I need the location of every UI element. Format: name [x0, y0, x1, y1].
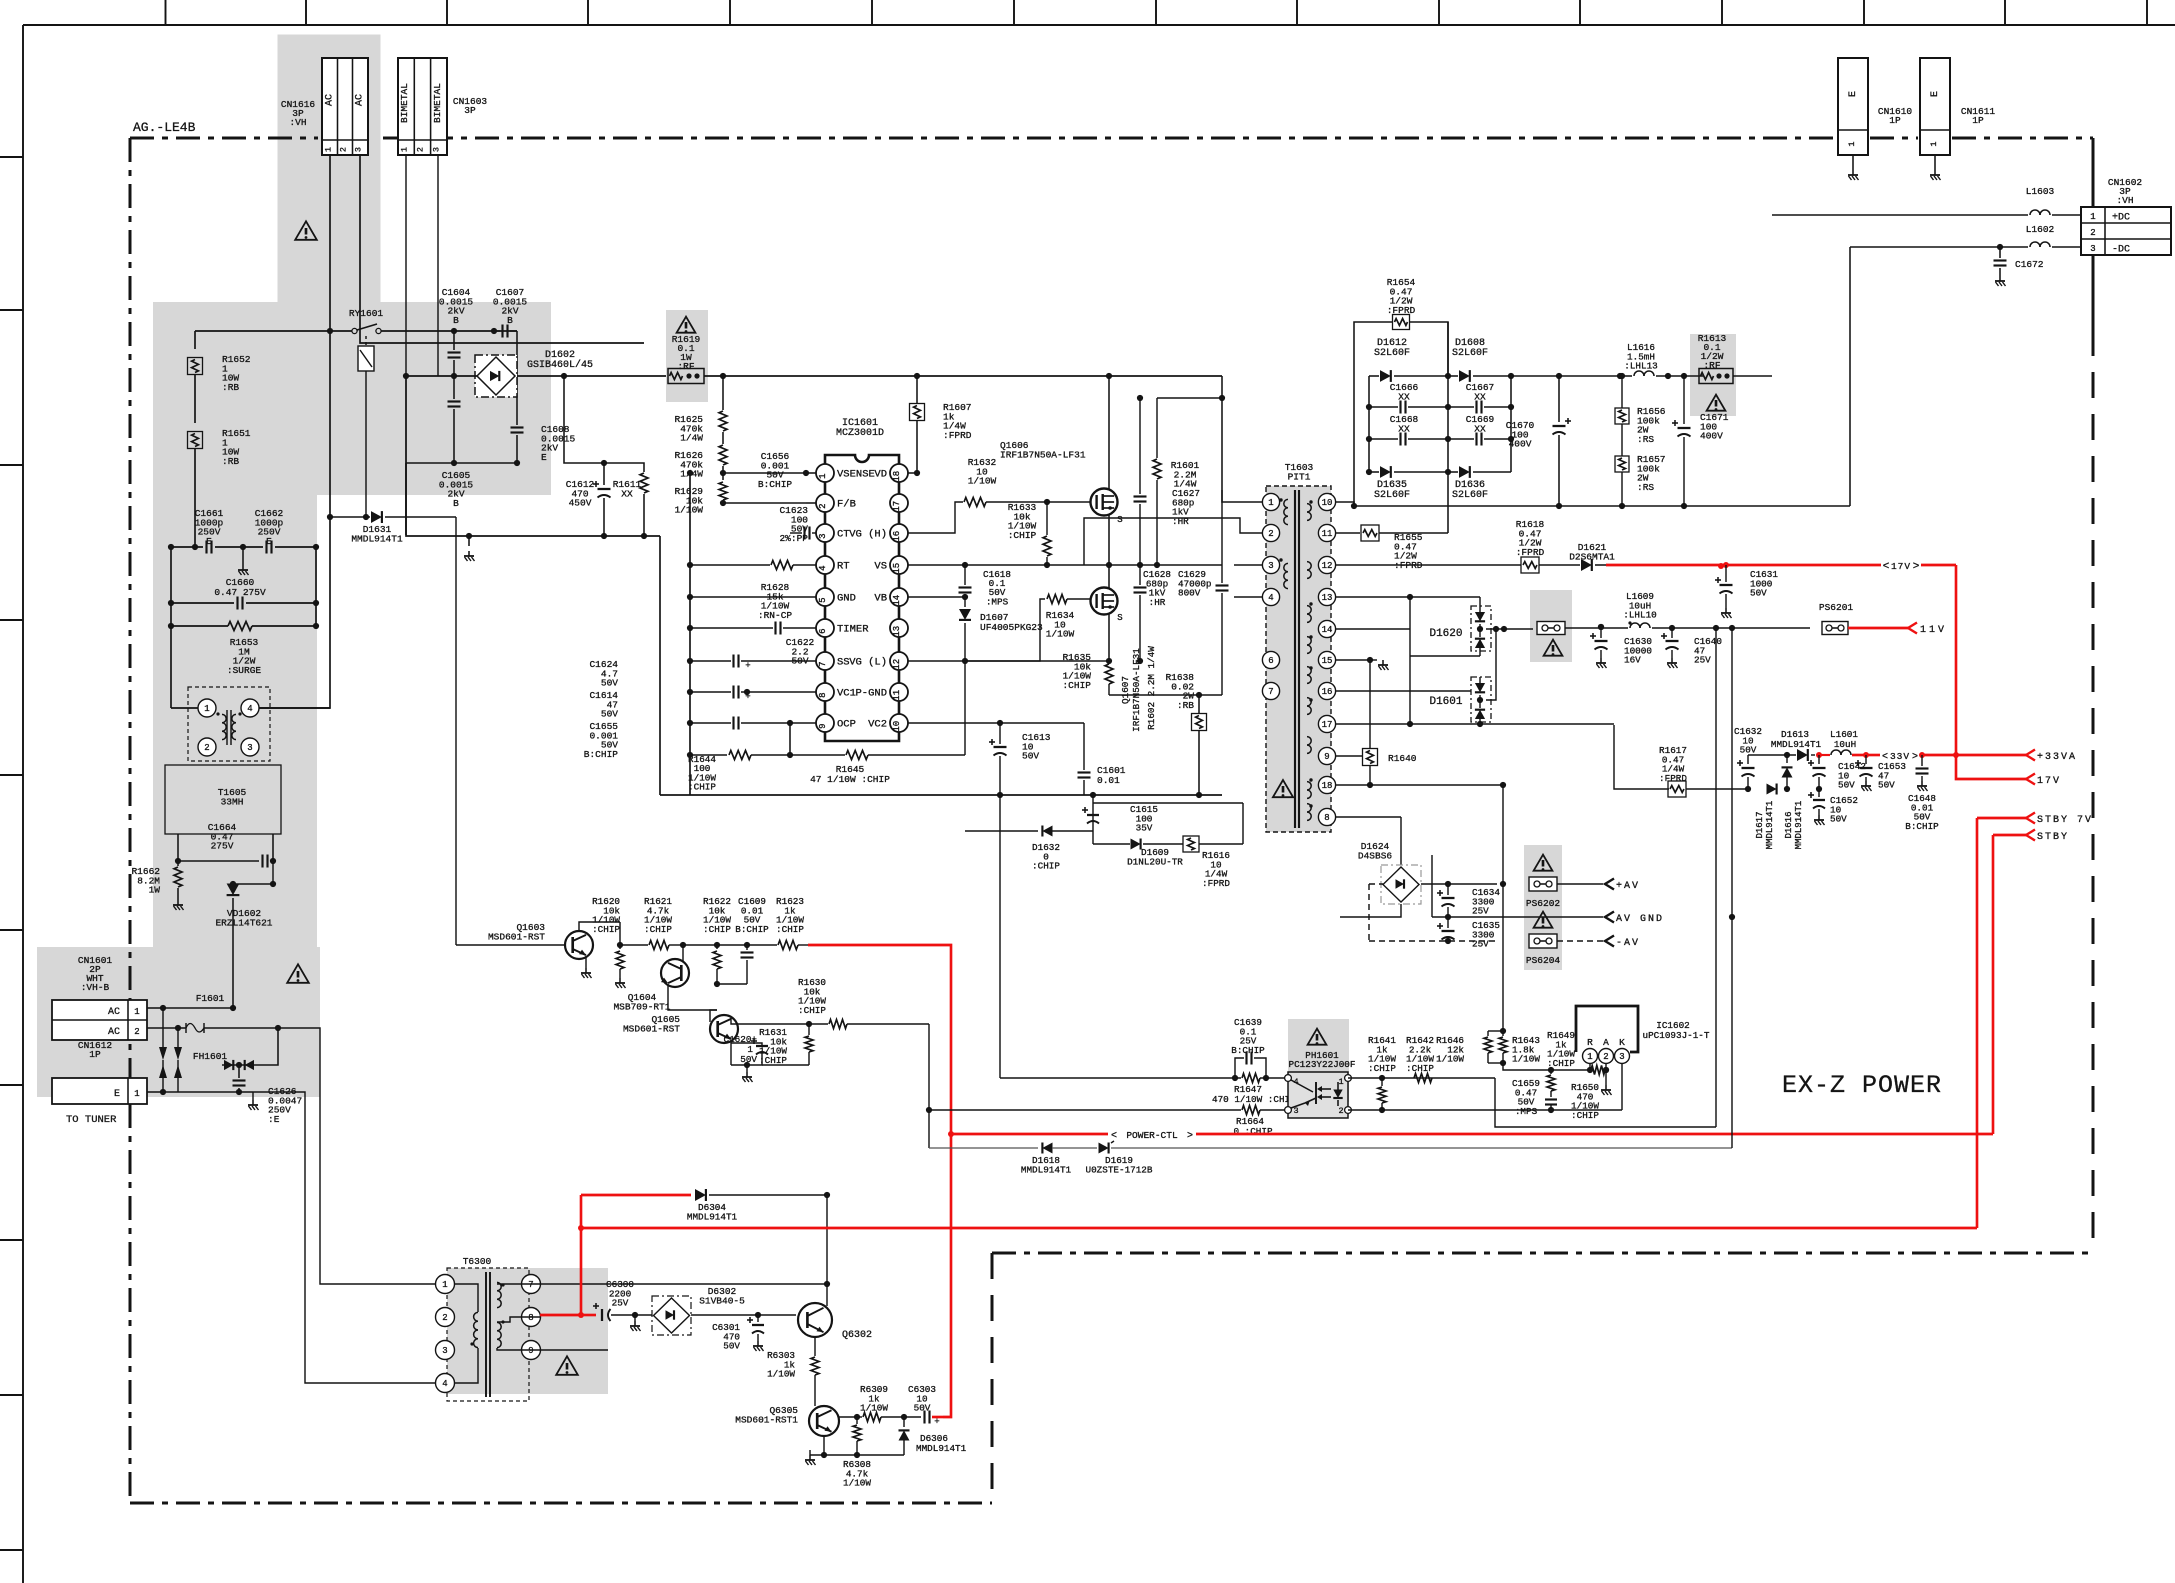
svg-text:<: < — [1883, 561, 1890, 573]
T1603 pin 16 — [1318, 682, 1335, 699]
svg-text:B: B — [507, 315, 513, 326]
svg-text:1: 1 — [324, 147, 334, 152]
resistor R1653 — [171, 625, 228, 627]
svg-text:2: 2 — [442, 1313, 447, 1323]
svg-text:TIMER: TIMER — [837, 624, 869, 636]
svg-text:S: S — [1117, 613, 1122, 623]
wire vsense to pin1 — [806, 472, 822, 474]
IC1601 pin 8 — [816, 683, 834, 701]
IC1601 pin 17 — [890, 494, 908, 512]
svg-text:0.47 275V: 0.47 275V — [214, 587, 266, 598]
fuse FH1601 on AC2 — [147, 1027, 178, 1029]
svg-text:1: 1 — [134, 1089, 139, 1099]
svg-text:+: + — [745, 661, 750, 671]
svg-text::MPS: :MPS — [1515, 1106, 1538, 1117]
svg-text:CT: CT — [837, 529, 850, 541]
svg-text:POWER-CTL: POWER-CTL — [1126, 1130, 1178, 1141]
IC1601 pin 4 — [816, 556, 834, 574]
IC1601 pin 3 — [816, 524, 834, 542]
svg-text:1: 1 — [2090, 212, 2095, 222]
resistor R1647 — [1242, 1074, 1260, 1083]
svg-text::CHIP: :CHIP — [798, 1005, 826, 1016]
T1603 pin coil stubs — [1284, 490, 1288, 502]
svg-text:10: 10 — [1322, 498, 1333, 508]
svg-text:13: 13 — [1322, 593, 1333, 603]
bridge rectifier D1602 — [475, 355, 517, 397]
svg-text:9: 9 — [528, 1346, 533, 1356]
transistor Q6302 darlington — [798, 1303, 832, 1337]
wire R1651 down — [194, 449, 196, 547]
svg-text:B:CHIP: B:CHIP — [758, 479, 793, 490]
wire rail branch down to C1612 — [564, 376, 604, 463]
svg-text::RS: :RS — [1637, 482, 1654, 493]
svg-text:uPC1093J-1-T: uPC1093J-1-T — [1643, 1030, 1710, 1041]
svg-text::FPRD: :FPRD — [1659, 773, 1687, 784]
wire top rail corner to C1608 — [516, 331, 518, 425]
connector CN1603 — [398, 58, 447, 155]
wire HV rail to T1603 pin1 — [1221, 376, 1223, 398]
svg-text:4: 4 — [1268, 593, 1273, 603]
svg-text:E: E — [1848, 91, 1859, 97]
gray region PS6204 — [1524, 906, 1562, 970]
wire 33V return line — [1748, 788, 1766, 790]
svg-text::RN-CP: :RN-CP — [758, 610, 793, 621]
svg-text:1/10W: 1/10W — [767, 1369, 795, 1380]
svg-text:6: 6 — [818, 628, 828, 633]
svg-text:5: 5 — [818, 597, 828, 602]
svg-text:F1601: F1601 — [196, 993, 225, 1004]
connector CN1616 — [322, 58, 368, 155]
wire T1605 connections — [171, 707, 198, 709]
wire VC2 to C1601 — [1000, 722, 1084, 724]
T1603 pin 12 — [1318, 556, 1335, 573]
svg-text:50V: 50V — [1830, 814, 1847, 825]
svg-text:TO TUNER: TO TUNER — [66, 1114, 117, 1126]
svg-text:2: 2 — [1338, 1106, 1343, 1116]
capacitor C1626 — [238, 1065, 240, 1078]
svg-text:B: B — [453, 315, 459, 326]
gray region R1613 — [1690, 334, 1736, 416]
IC1602 pin3 to K line — [1621, 1063, 1623, 1110]
svg-text::FPRD: :FPRD — [1516, 547, 1545, 558]
wire opto pin1 line — [1348, 1077, 1495, 1079]
T1603 pin 1 — [1262, 493, 1279, 510]
wire D1620 center out to 11V — [1486, 628, 1533, 630]
wire GND pin5 — [690, 596, 816, 598]
svg-text:1: 1 — [1587, 1052, 1592, 1062]
gray region T1603 — [1266, 486, 1331, 832]
svg-text::RF: :RF — [677, 361, 694, 372]
svg-text:1P: 1P — [1972, 115, 1984, 126]
left bus vertical — [689, 473, 691, 755]
IC1601 pin 14 — [890, 588, 908, 606]
svg-text:2: 2 — [2090, 228, 2095, 238]
resistor R1628 at RT — [690, 564, 770, 566]
svg-text:18: 18 — [1322, 781, 1333, 791]
transistor Q1607 MOSFET — [1091, 588, 1118, 615]
capacitor C1672 — [1997, 244, 2003, 250]
svg-text:IRF1B7N50A-LF31: IRF1B7N50A-LF31 — [1000, 449, 1086, 460]
resistor R1601 — [1157, 397, 1222, 399]
svg-text:STBY: STBY — [2037, 832, 2069, 843]
svg-text:L1603: L1603 — [2026, 186, 2055, 197]
+AV arrow — [1605, 879, 1614, 890]
wire Q1606 source to VS rail — [1108, 515, 1110, 565]
svg-text:OCP: OCP — [837, 719, 856, 731]
svg-text:-AV: -AV — [1616, 938, 1640, 949]
svg-text:11: 11 — [892, 690, 902, 701]
wire main HV rail — [704, 375, 1222, 377]
red STBY7V vertical — [1976, 818, 1979, 1228]
diode pair at C1626 — [232, 1008, 234, 1065]
svg-text:S2L60F: S2L60F — [1452, 490, 1488, 501]
svg-text:VC1: VC1 — [837, 688, 856, 700]
wire AC1 arrows — [162, 1008, 164, 1047]
T6300 winding stubs — [454, 1284, 478, 1312]
svg-text::FPRD: :FPRD — [943, 430, 972, 441]
svg-text:VC2: VC2 — [868, 719, 887, 731]
svg-text:BIMETAL: BIMETAL — [432, 83, 443, 123]
wire T1605 to lower section — [177, 834, 179, 861]
relay RY1601 coil — [365, 336, 367, 346]
jumper gray PS with warn — [1537, 622, 1565, 635]
svg-text:D1NL20U-TR: D1NL20U-TR — [1127, 856, 1183, 867]
svg-text:1: 1 — [818, 473, 828, 478]
wire R1655 to D block mid — [1379, 532, 1448, 534]
svg-text:7: 7 — [528, 1280, 533, 1290]
wire R1664 line — [929, 1109, 1241, 1111]
svg-text::LHL10: :LHL10 — [1623, 610, 1656, 621]
T1603 pin 18 — [1318, 776, 1335, 793]
T1603 pin 15 — [1318, 651, 1335, 668]
svg-text:25V: 25V — [1694, 655, 1711, 666]
svg-text:4: 4 — [247, 704, 252, 714]
svg-text:AV GND: AV GND — [1616, 914, 1664, 925]
svg-text:1P: 1P — [89, 1049, 101, 1060]
svg-text:450V: 450V — [569, 498, 592, 509]
svg-text:800V: 800V — [1178, 588, 1201, 599]
diode D6304 line — [581, 1194, 691, 1197]
wire fb to pin2 — [806, 502, 822, 504]
fuse PS6202 — [1534, 855, 1553, 871]
warning symbol T6300 — [556, 1356, 578, 1375]
resistor R1655 fusible — [1361, 525, 1379, 541]
svg-text:L1602: L1602 — [2026, 224, 2055, 235]
svg-text:3: 3 — [1619, 1052, 1624, 1062]
wire pin12 VG(L) to Q1607 gate — [908, 599, 1045, 661]
svg-text:1/10W: 1/10W — [843, 1478, 871, 1489]
svg-text:PIT1: PIT1 — [1288, 472, 1311, 483]
svg-text:17V: 17V — [2037, 776, 2061, 787]
svg-text:MMDL914T1: MMDL914T1 — [351, 533, 403, 544]
svg-text:R1640: R1640 — [1388, 753, 1417, 764]
svg-text::CHIP: :CHIP — [1032, 861, 1060, 872]
svg-text:1/10W: 1/10W — [1436, 1054, 1464, 1065]
wire CN1616 pin3 run — [360, 155, 644, 343]
resistor R1619 fusible — [677, 317, 696, 333]
svg-text:4: 4 — [818, 565, 828, 570]
svg-text:8: 8 — [818, 692, 828, 697]
page frame — [23, 24, 2175, 26]
wire D1618 line — [929, 1147, 1038, 1149]
svg-text:1: 1 — [1268, 498, 1273, 508]
svg-text:RT: RT — [837, 561, 850, 573]
wire pin3 run — [1234, 564, 1262, 566]
svg-text:3: 3 — [1268, 561, 1273, 571]
IC1601 pin 1 — [816, 464, 834, 482]
wire FH1601 to T6300 pin1 — [275, 1025, 281, 1031]
wire bridge left rail — [406, 375, 477, 377]
svg-text:1/10W: 1/10W — [968, 476, 997, 487]
svg-text:MMDL914T1: MMDL914T1 — [916, 1443, 967, 1454]
svg-text:UF4005PKG23: UF4005PKG23 — [980, 622, 1043, 633]
svg-text:B:CHIP: B:CHIP — [584, 749, 619, 760]
svg-text:MMDL914T1: MMDL914T1 — [687, 1211, 738, 1222]
svg-text:3: 3 — [354, 147, 364, 152]
red wire R1623 to power-ctl — [798, 944, 808, 946]
svg-text:MSD601-RST: MSD601-RST — [623, 1023, 680, 1034]
svg-text:P-GND: P-GND — [855, 688, 887, 700]
diode D1636 — [1448, 471, 1458, 473]
wire pin1 line corner down — [1495, 1078, 1716, 1127]
gray region T6300 — [447, 1268, 608, 1394]
wire relay coil down — [365, 371, 367, 517]
base line right — [838, 1416, 857, 1418]
T1603 primary coils — [1284, 499, 1288, 507]
IC1601 pin 9 — [816, 714, 834, 732]
capacitor C1631 — [1723, 562, 1729, 568]
svg-text:R1602 2.2M 1/4W: R1602 2.2M 1/4W — [1146, 646, 1157, 730]
wire sense node — [1503, 1063, 1590, 1070]
IC1601 pin 2 — [816, 494, 834, 512]
svg-text:E: E — [114, 1089, 120, 1100]
wire +AV line — [1421, 883, 1497, 885]
svg-text:47 1/10W :CHIP: 47 1/10W :CHIP — [810, 774, 890, 785]
svg-text:EX-Z POWER: EX-Z POWER — [1782, 1071, 1942, 1100]
svg-text:17: 17 — [1322, 720, 1333, 730]
svg-text:VSENSE: VSENSE — [837, 469, 875, 481]
svg-text:50V: 50V — [601, 709, 618, 720]
svg-text:10uH: 10uH — [1834, 739, 1856, 750]
wire D1601 center out — [1486, 629, 1496, 700]
T1603 pin 14 — [1318, 620, 1335, 637]
gray region PS6202 — [1524, 845, 1562, 909]
wire AC to resistor chain — [195, 330, 330, 332]
wire left column verticals — [170, 547, 172, 708]
wire CT pin3 — [789, 503, 791, 533]
T1603 pin 6 — [1262, 651, 1279, 668]
svg-text::CHIP: :CHIP — [776, 924, 804, 935]
svg-text:GND: GND — [837, 593, 856, 605]
red STBY7V rail bottom — [578, 1225, 584, 1231]
red +33VA arrow — [2026, 750, 2035, 761]
svg-text:50V: 50V — [1022, 751, 1039, 762]
wire bridge bottom return — [1340, 904, 1401, 917]
svg-text:400V: 400V — [1509, 439, 1532, 450]
svg-text:16V: 16V — [1624, 655, 1641, 666]
svg-text:<: < — [1111, 1131, 1117, 1142]
svg-text:3: 3 — [2090, 244, 2095, 254]
svg-text:2: 2 — [204, 743, 209, 753]
svg-text:GSIB460L/45: GSIB460L/45 — [527, 359, 593, 371]
svg-text:S2L60F: S2L60F — [1374, 348, 1410, 359]
svg-text:AC: AC — [325, 94, 336, 106]
wire D6302 out — [691, 1314, 796, 1316]
svg-text:1: 1 — [1338, 1077, 1343, 1087]
svg-text:8: 8 — [528, 1313, 533, 1323]
fuse PS6204 — [1534, 912, 1553, 928]
IC1601 pin 10 — [890, 714, 908, 732]
svg-text:7: 7 — [1268, 687, 1273, 697]
IC1601 pin 11 — [890, 683, 908, 701]
diode D1631 — [330, 516, 370, 518]
T1603 pin 4 — [1262, 588, 1279, 605]
svg-text:33MH: 33MH — [221, 796, 244, 807]
svg-text::MPS: :MPS — [986, 596, 1009, 607]
svg-text:XX: XX — [621, 488, 633, 499]
svg-text::CHIP: :CHIP — [1008, 530, 1037, 541]
diode D6306 — [903, 1417, 905, 1427]
svg-text::CHIP: :CHIP — [688, 782, 716, 793]
svg-text:AC: AC — [355, 94, 366, 106]
wire CN1611 ground stub — [1934, 155, 1936, 170]
svg-text:+: + — [934, 1417, 939, 1427]
T1603 pin 3 — [1262, 556, 1279, 573]
capacitor C1628 snubber — [1139, 565, 1141, 585]
wire R1652-R1651 — [194, 375, 196, 423]
svg-text:RY1601: RY1601 — [349, 308, 384, 319]
wire opto pin2 line — [1348, 1109, 1622, 1111]
svg-text::CHIP: :CHIP — [1368, 1063, 1396, 1074]
svg-text:2: 2 — [339, 147, 349, 152]
svg-text:50V: 50V — [723, 1341, 740, 1352]
svg-text::CHIP: :CHIP — [1062, 680, 1091, 691]
svg-text:2: 2 — [134, 1027, 139, 1037]
svg-text::CHIP: :CHIP — [703, 924, 731, 935]
svg-text:T6300: T6300 — [463, 1256, 492, 1267]
capacitor C1613 — [908, 722, 1000, 724]
wire to fuse F1601 — [232, 955, 234, 1008]
svg-text:>: > — [1187, 1131, 1193, 1142]
IC1602 pin2 ground — [1605, 1063, 1607, 1085]
svg-text:E: E — [541, 452, 547, 463]
long vertical to IC1602 box — [1715, 628, 1717, 832]
svg-text::CHIP: :CHIP — [759, 1055, 787, 1066]
svg-text:K: K — [1619, 1037, 1625, 1048]
svg-text:11: 11 — [1322, 529, 1333, 539]
svg-text:50V: 50V — [1750, 588, 1767, 599]
svg-text:Q1607: Q1607 — [1120, 676, 1131, 704]
diode D1619 zener — [1099, 1143, 1109, 1154]
svg-text:275V: 275V — [211, 841, 234, 852]
connector CN1611 — [1920, 58, 1950, 155]
wire pin17 rail — [1336, 723, 1614, 725]
svg-text:1/10W: 1/10W — [1512, 1054, 1540, 1065]
svg-text::VH: :VH — [289, 117, 306, 128]
svg-text::CHIP: :CHIP — [644, 924, 672, 935]
T1603 pin 7 — [1262, 682, 1279, 699]
svg-text:1: 1 — [400, 147, 410, 152]
svg-text:+33VA: +33VA — [2037, 752, 2077, 763]
svg-text::E: :E — [268, 1114, 280, 1125]
VS rail — [908, 564, 1222, 566]
red STBY vertical — [1992, 835, 1995, 1134]
IC1601 pin 7 — [816, 652, 834, 670]
svg-text:1/10W: 1/10W — [674, 505, 703, 516]
wire pin10 rail — [1336, 502, 1850, 506]
wire pin9 R1640 — [1336, 755, 1362, 757]
svg-text:3: 3 — [818, 533, 828, 538]
svg-text:MMDL914T1: MMDL914T1 — [1021, 1164, 1072, 1175]
svg-text:4: 4 — [442, 1379, 447, 1389]
T1603 pin 8 — [1318, 808, 1335, 825]
svg-text:15: 15 — [892, 563, 902, 574]
resistor R1652 — [188, 358, 203, 375]
svg-text:D1620: D1620 — [1429, 628, 1462, 640]
AV GND arrow — [1605, 912, 1614, 923]
svg-text:0 :CHIP: 0 :CHIP — [1233, 1126, 1272, 1137]
wire Q1607 source down — [1108, 614, 1110, 661]
svg-text:1: 1 — [1847, 141, 1857, 146]
diode D1607 — [959, 609, 971, 620]
svg-text:9: 9 — [1324, 752, 1329, 762]
svg-text:6: 6 — [1268, 656, 1273, 666]
svg-text::CHIP: :CHIP — [1571, 1110, 1599, 1121]
svg-text:25V: 25V — [612, 1298, 629, 1309]
svg-text:MMDL914T1: MMDL914T1 — [1794, 801, 1804, 850]
svg-text:400V: 400V — [1700, 431, 1723, 442]
svg-text:B: B — [453, 498, 459, 509]
svg-text:3: 3 — [432, 147, 442, 152]
wire pin13 run — [1336, 596, 1480, 598]
svg-text:50V: 50V — [1838, 780, 1855, 791]
svg-text:25V: 25V — [1472, 906, 1489, 917]
T1603 pin 11 — [1318, 524, 1335, 541]
svg-text:35V: 35V — [1136, 823, 1153, 834]
optocoupler PH1601 — [1308, 1029, 1327, 1045]
svg-text:50V: 50V — [601, 678, 618, 689]
resistor R1645 — [790, 754, 845, 756]
-AV arrow — [1605, 936, 1614, 947]
svg-text:470 1/10W :CHIP: 470 1/10W :CHIP — [1212, 1094, 1296, 1105]
svg-text::RB: :RB — [222, 382, 239, 393]
svg-text:1: 1 — [1929, 141, 1939, 146]
wire VB pin14 — [908, 596, 965, 598]
svg-text:1W: 1W — [149, 885, 161, 896]
connector CN1610 — [1838, 58, 1868, 155]
ground rail Q6305 — [810, 1454, 904, 1456]
svg-text:VG (H): VG (H) — [849, 529, 887, 541]
ground C1661/C1662 mid — [242, 547, 244, 565]
wire R1654 right leg — [1410, 322, 1448, 376]
wire pin14 run — [1336, 628, 1410, 630]
diode D1616 inline — [1767, 784, 1777, 795]
IC1602 pin1 to node — [1589, 1063, 1591, 1070]
svg-text:Q6302: Q6302 — [842, 1330, 872, 1341]
svg-text:3P: 3P — [464, 105, 476, 116]
wire pin7 run — [540, 1283, 827, 1285]
svg-text:BIMETAL: BIMETAL — [399, 83, 410, 123]
svg-text::CHIP: :CHIP — [1547, 1058, 1575, 1069]
wire R1635/R1638 join — [1109, 694, 1199, 696]
svg-text:15: 15 — [1322, 656, 1333, 666]
svg-text:B:CHIP: B:CHIP — [1231, 1045, 1265, 1056]
svg-text:12: 12 — [1322, 561, 1333, 571]
wire D1620 bottom to mid vertical — [1410, 655, 1480, 657]
svg-text:MMDL914T1: MMDL914T1 — [1771, 739, 1822, 750]
wire 17V red rail — [1606, 564, 1721, 567]
wire C1632 top to D1613 line — [1748, 754, 1796, 756]
